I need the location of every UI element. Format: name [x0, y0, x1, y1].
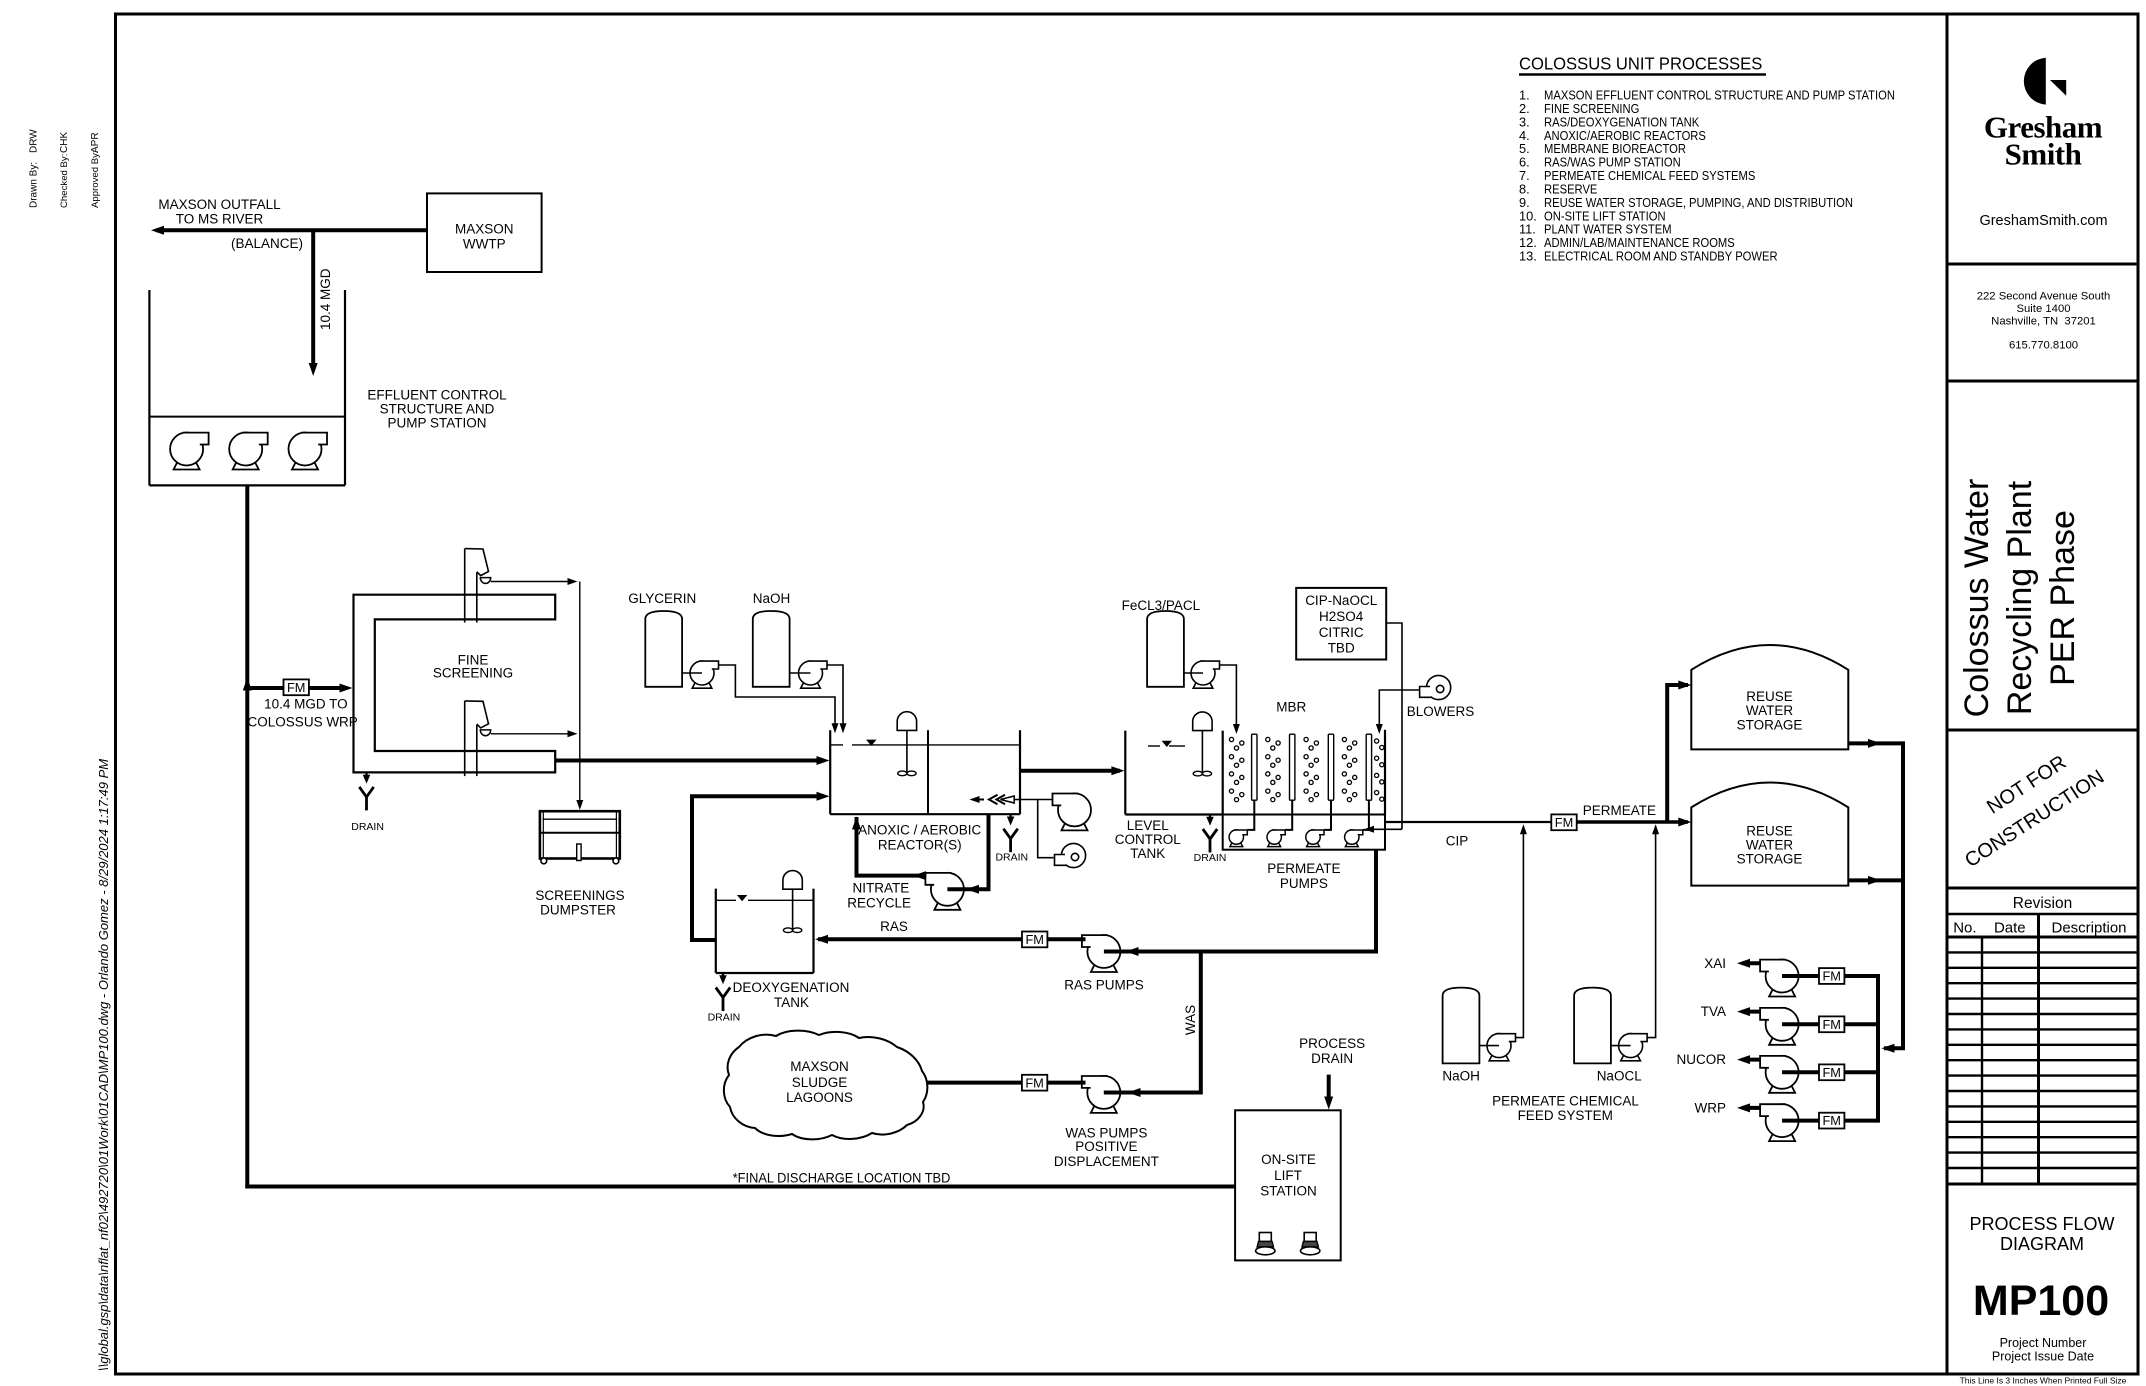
svg-text:REUSE: REUSE: [1746, 823, 1793, 838]
tank: GLYCERIN: [645, 611, 682, 687]
cloud: MAXSON SLUDGE LAGOONS: [724, 1031, 928, 1140]
pipe: permeate header: [1385, 821, 1551, 823]
svg-text:NaOCL: NaOCL: [1597, 1069, 1643, 1084]
screen: lower fine screen: [464, 701, 466, 776]
flow meter FM TVA: [1819, 1016, 1844, 1032]
svg-text:WATER: WATER: [1746, 837, 1793, 852]
svg-text:FM: FM: [1822, 1113, 1840, 1128]
arrow: flow up to screening junction: [243, 678, 252, 691]
flow meter FM WRP: [1819, 1113, 1844, 1129]
pump: FeCL3 feed: [1184, 672, 1203, 674]
svg-text:FM: FM: [1025, 932, 1043, 947]
svg-text:CITRIC: CITRIC: [1319, 625, 1364, 640]
pipe: CIP supply: [1386, 623, 1402, 829]
pump: WAS positive displacement: [1082, 1076, 1121, 1113]
svg-text:EFFLUENT CONTROL: EFFLUENT CONTROL: [367, 388, 507, 403]
flow meter FM XAI: [1819, 968, 1844, 984]
svg-text:Suite 1400: Suite 1400: [2016, 303, 2070, 315]
pipe: membrane 4 suction: [1363, 800, 1369, 830]
screen: upper fine screen: [464, 549, 466, 623]
tank: reuse water storage lower: [1691, 783, 1848, 886]
svg-text:MAXSON OUTFALL: MAXSON OUTFALL: [158, 197, 281, 212]
svg-text:\\global.gsp\data\nflat_nf02\4: \\global.gsp\data\nflat_nf02\492720\01Wo…: [96, 759, 111, 1371]
pump: permeate pump 1: [1229, 830, 1247, 847]
pipe: membrane 3 suction: [1324, 800, 1331, 830]
svg-text:WAS: WAS: [1183, 1005, 1198, 1035]
pipe: WAS branch: [1104, 952, 1201, 1093]
svg-text:Project Number: Project Number: [2000, 1336, 2087, 1350]
tank: level control tank: [1124, 731, 1126, 815]
equipment: screenings dumpster: [540, 811, 620, 858]
title: COLOSSUS UNIT PROCESSES: [1519, 54, 1762, 73]
svg-text:DISPLACEMENT: DISPLACEMENT: [1054, 1154, 1159, 1169]
pipe: membrane 2 suction: [1285, 800, 1292, 830]
flow meter FM RAS: [1022, 932, 1047, 948]
divider: [1947, 380, 2138, 383]
pipe: distribution manifold: [1876, 974, 1880, 1123]
tank: effluent control structure: [148, 290, 150, 485]
svg-text:NITRATE: NITRATE: [853, 880, 910, 895]
water line level tank: [1148, 745, 1160, 747]
svg-text:GLYCERIN: GLYCERIN: [628, 591, 696, 606]
svg-text:TO MS RIVER: TO MS RIVER: [176, 212, 264, 227]
svg-text:615.770.8100: 615.770.8100: [2009, 340, 2078, 352]
wall: reactor partition: [927, 730, 929, 814]
svg-text:10.4 MGD: 10.4 MGD: [318, 268, 333, 330]
pipe: WAS to lagoons: [913, 1081, 1086, 1085]
revision table rows: [1981, 937, 1983, 1184]
svg-text:Date: Date: [1994, 920, 2026, 937]
svg-text:XAI: XAI: [1704, 956, 1726, 971]
title block divider: [1946, 14, 1949, 1374]
tank: MBR basin: [1222, 731, 1224, 815]
svg-text:REACTOR(S): REACTOR(S): [878, 837, 962, 852]
divider: [1947, 263, 2138, 266]
pipe: screenings conveyor lower: [491, 733, 572, 735]
svg-text:ON-SITE: ON-SITE: [1261, 1152, 1316, 1167]
divider: [1947, 1183, 2138, 1186]
pipe: XAI suction: [1782, 974, 1878, 978]
pipe: WRP suction: [1782, 1119, 1878, 1123]
svg-text:Checked By:: Checked By:: [59, 154, 70, 208]
svg-text:TBD: TBD: [1328, 641, 1355, 656]
pipe: RAS discharge: [818, 937, 1086, 941]
logo: Gresham Smith mark: [2024, 58, 2046, 105]
svg-text:Recycling Plant: Recycling Plant: [2001, 480, 2039, 715]
pipe: mixed liquor draw to nitrate pump: [947, 814, 988, 889]
svg-text:222 Second Avenue South: 222 Second Avenue South: [1977, 291, 2111, 303]
flow meter FM influent: [284, 679, 309, 695]
svg-text:DRAIN: DRAIN: [1311, 1051, 1353, 1066]
svg-text:MAXSON: MAXSON: [455, 222, 514, 237]
svg-text:SCREENING: SCREENING: [433, 666, 513, 681]
water line deox: [716, 899, 736, 901]
mixer: level control tank: [1193, 712, 1212, 776]
svg-text:PERMEATE: PERMEATE: [1267, 861, 1340, 876]
membrane module 4: [1366, 734, 1371, 800]
divider: [1947, 913, 2138, 916]
svg-text:PERMEATE CHEMICAL: PERMEATE CHEMICAL: [1492, 1094, 1639, 1109]
svg-text:LAGOONS: LAGOONS: [786, 1090, 853, 1105]
pipe: NUCOR suction: [1782, 1070, 1878, 1074]
svg-text:Smith: Smith: [2005, 137, 2082, 172]
svg-text:DRW: DRW: [29, 129, 40, 153]
pipe: deox to reactor: [692, 796, 824, 940]
pump: permeate pump 4: [1345, 830, 1363, 847]
svg-text:LEVEL: LEVEL: [1127, 818, 1170, 833]
pipe: nitrate recycle return: [857, 817, 927, 876]
svg-text:RAS: RAS: [880, 919, 908, 934]
svg-text:10.4 MGD TO: 10.4 MGD TO: [264, 697, 348, 712]
svg-text:This Line Is 3 Inches When Pri: This Line Is 3 Inches When Printed Full …: [1960, 1376, 2127, 1386]
pipe: final discharge run: [245, 1185, 1235, 1189]
pipe: to TVA: [1742, 1010, 1760, 1014]
svg-text:Drawn By:: Drawn By:: [29, 162, 40, 208]
tank: NaOH permeate: [1443, 988, 1480, 1064]
svg-text:FM: FM: [1822, 1017, 1840, 1032]
pipe: CIP return into pump header: [1366, 828, 1402, 830]
tank: reuse water storage upper: [1691, 645, 1848, 749]
pump: glycerin feed: [682, 672, 702, 674]
blower: jet air: [1055, 843, 1086, 867]
pipe: structure outlet down: [245, 485, 249, 1188]
pump: submersible 1: [1256, 1233, 1275, 1255]
pipe: screenings conveyor upper: [491, 581, 572, 583]
svg-text:Description: Description: [2051, 920, 2126, 937]
pump: effluent pump 2: [229, 433, 268, 470]
svg-text:DRAIN: DRAIN: [708, 1012, 741, 1024]
pipe: membrane 1 suction: [1247, 800, 1254, 830]
pipe: upper tank outlet: [1848, 741, 1903, 745]
pipe: outfall to MS river: [156, 228, 427, 232]
pump: RAS pump: [1082, 935, 1121, 972]
mixer: anoxic cell: [897, 712, 916, 776]
svg-text:*FINAL DISCHARGE LOCATION TBD: *FINAL DISCHARGE LOCATION TBD: [733, 1170, 951, 1185]
pipe: to WRP: [1742, 1106, 1760, 1110]
svg-text:DUMPSTER: DUMPSTER: [540, 903, 616, 918]
pipe: lower tank outlet: [1848, 878, 1903, 882]
svg-text:Colossus Water: Colossus Water: [1958, 479, 1996, 718]
svg-text:DIAGRAM: DIAGRAM: [2000, 1234, 2084, 1254]
pipe: 10.4 MGD drop to effluent structure: [311, 230, 315, 368]
pump: NUCOR distribution: [1760, 1056, 1799, 1093]
pump: NaOCL permeate feed: [1611, 1045, 1631, 1047]
membrane module 1: [1252, 734, 1257, 800]
pipe: to NUCOR: [1742, 1058, 1760, 1062]
pipe: jet feed line: [1020, 799, 1053, 801]
svg-text:TVA: TVA: [1701, 1004, 1726, 1019]
membrane module 3: [1328, 734, 1333, 800]
svg-text:RECYCLE: RECYCLE: [847, 895, 911, 910]
eductor: nitrate recycle jet: [1014, 799, 1020, 801]
pump: TVA distribution: [1760, 1008, 1799, 1045]
pipe: screenings drop to dumpster: [579, 582, 581, 805]
svg-text:(BALANCE): (BALANCE): [231, 236, 303, 251]
svg-text:STATION: STATION: [1260, 1184, 1317, 1199]
svg-text:H2SO4: H2SO4: [1319, 609, 1364, 624]
svg-text:MP100: MP100: [1973, 1277, 2109, 1325]
pump: XAI distribution: [1760, 960, 1799, 997]
svg-text:CIP-NaOCL: CIP-NaOCL: [1305, 593, 1378, 608]
svg-text:13.: 13.: [1519, 249, 1537, 264]
svg-text:PERMEATE: PERMEATE: [1583, 803, 1656, 818]
svg-text:CONTROL: CONTROL: [1115, 832, 1181, 847]
flow meter FM NUCOR: [1819, 1064, 1844, 1080]
svg-text:FM: FM: [1025, 1075, 1043, 1090]
svg-text:DRAIN: DRAIN: [1194, 852, 1227, 864]
svg-text:BLOWERS: BLOWERS: [1407, 704, 1475, 719]
svg-text:ELECTRICAL ROOM AND STANDBY PO: ELECTRICAL ROOM AND STANDBY POWER: [1544, 249, 1778, 264]
box: on-site lift station: [1235, 1110, 1341, 1260]
pipe: process drain into lift station: [1327, 1075, 1331, 1103]
pipe: air to jet: [1038, 800, 1054, 858]
svg-text:SCREENINGS: SCREENINGS: [535, 888, 624, 903]
pipe: storage to distribution manifold: [1884, 741, 1903, 1048]
tank: NaOH (reactor): [753, 611, 790, 687]
svg-text:STRUCTURE AND: STRUCTURE AND: [380, 402, 495, 417]
svg-text:TANK: TANK: [774, 995, 809, 1010]
divider: [1947, 936, 2138, 939]
svg-text:WATER: WATER: [1746, 703, 1793, 718]
svg-text:CHK: CHK: [59, 132, 70, 153]
svg-text:FEED SYSTEM: FEED SYSTEM: [1518, 1108, 1613, 1123]
drain: deox tank: [722, 973, 724, 979]
svg-text:PROCESS FLOW: PROCESS FLOW: [1969, 1214, 2114, 1234]
flow meter FM WAS: [1022, 1075, 1047, 1091]
divider: [1947, 887, 2138, 890]
pipe: TVA suction: [1782, 1022, 1878, 1026]
blower: MBR air blowers: [1420, 675, 1451, 699]
svg-text:GreshamSmith.com: GreshamSmith.com: [1979, 213, 2107, 229]
pipe: reactor outlet to level control tank: [1020, 769, 1120, 773]
pipe: NaOCL to permeate line: [1647, 826, 1656, 1038]
aeration bubbles MBR: [1229, 737, 1384, 801]
svg-text:TANK: TANK: [1130, 846, 1165, 861]
pipe: influent to fine screening: [247, 686, 347, 690]
svg-text:MAXSON: MAXSON: [790, 1059, 849, 1074]
pump: submersible 2: [1301, 1233, 1320, 1255]
svg-text:PUMPS: PUMPS: [1280, 876, 1328, 891]
pipe: glycerin dose line: [719, 665, 836, 728]
pipe: MBR waste to RAS/WAS: [1104, 850, 1376, 952]
pump: permeate pump 2: [1267, 830, 1285, 847]
pump: WRP distribution: [1760, 1104, 1799, 1141]
flow meter FM permeate: [1551, 814, 1576, 830]
box: MAXSON WWTP: [427, 193, 542, 272]
svg-text:PUMP STATION: PUMP STATION: [387, 416, 486, 431]
svg-text:Project Issue Date: Project Issue Date: [1992, 1350, 2094, 1364]
pump: effluent pump 3: [289, 433, 328, 470]
tank: anoxic/aerobic reactor: [829, 730, 831, 814]
svg-text:STORAGE: STORAGE: [1737, 717, 1803, 732]
svg-text:COLOSSUS WRP: COLOSSUS WRP: [248, 715, 358, 730]
svg-text:FM: FM: [287, 680, 305, 695]
box: CIP chemicals: [1296, 588, 1386, 660]
svg-text:DRAIN: DRAIN: [995, 852, 1028, 864]
svg-text:WAS PUMPS: WAS PUMPS: [1065, 1125, 1147, 1140]
svg-text:PER Phase: PER Phase: [2044, 510, 2082, 686]
svg-text:APR: APR: [90, 132, 101, 153]
pump: nitrate recycle: [925, 873, 964, 910]
svg-text:FM: FM: [1822, 969, 1840, 984]
pump: NaOH feed: [790, 672, 811, 674]
svg-text:FM: FM: [1822, 1065, 1840, 1080]
pipe: FeCL3 dose to MBR: [1220, 665, 1237, 729]
svg-text:ANOXIC / AEROBIC: ANOXIC / AEROBIC: [858, 822, 981, 837]
svg-text:FM: FM: [1555, 815, 1573, 830]
svg-text:DRAIN: DRAIN: [351, 821, 384, 833]
divider: [1947, 729, 2138, 732]
drain: reactor: [1009, 814, 1011, 820]
svg-text:WWTP: WWTP: [463, 237, 506, 252]
svg-text:POSITIVE: POSITIVE: [1075, 1139, 1137, 1154]
svg-text:FeCL3/PACL: FeCL3/PACL: [1122, 598, 1201, 613]
svg-text:Approved By:: Approved By:: [90, 150, 101, 208]
svg-text:CIP: CIP: [1446, 834, 1469, 849]
drain: fine screening: [365, 772, 367, 778]
tank: fine screening channel: [354, 595, 556, 773]
svg-text:REUSE: REUSE: [1746, 689, 1793, 704]
pipe: NaOH to permeate line: [1516, 826, 1524, 1038]
svg-text:RAS PUMPS: RAS PUMPS: [1064, 978, 1144, 993]
pipe: air to MBR: [1379, 690, 1419, 729]
tank: NaOCL permeate: [1574, 988, 1611, 1064]
pump: permeate pump 3: [1306, 830, 1324, 847]
svg-text:NaOH: NaOH: [1442, 1069, 1480, 1084]
pipe: NaOH dose line: [827, 665, 843, 728]
svg-text:Revision: Revision: [2013, 895, 2072, 912]
mixer: deox tank: [783, 871, 802, 933]
svg-text:WRP: WRP: [1695, 1100, 1727, 1115]
svg-text:LIFT: LIFT: [1274, 1168, 1302, 1183]
svg-text:NUCOR: NUCOR: [1677, 1052, 1727, 1067]
pipe: screened water to reactors: [555, 759, 824, 763]
pipe: to XAI: [1742, 961, 1760, 965]
svg-text:SLUDGE: SLUDGE: [792, 1075, 848, 1090]
svg-text:DEOXYGENATION: DEOXYGENATION: [733, 980, 850, 995]
svg-text:Nashville, TN 37201: Nashville, TN 37201: [1991, 316, 2096, 328]
svg-text:STORAGE: STORAGE: [1737, 852, 1803, 867]
drain: level control tank: [1209, 815, 1211, 821]
svg-text:PROCESS: PROCESS: [1299, 1036, 1365, 1051]
pipe: permeate riser to upper tank: [1667, 685, 1688, 822]
svg-text:MBR: MBR: [1276, 700, 1306, 715]
pump: effluent pump 1: [170, 433, 209, 470]
water line reactor: [830, 744, 843, 746]
svg-text:COLOSSUS UNIT PROCESSES: COLOSSUS UNIT PROCESSES: [1519, 54, 1762, 73]
pump: NaOH permeate feed: [1479, 1045, 1499, 1047]
tank: deoxygenation: [715, 889, 717, 973]
membrane module 2: [1290, 734, 1295, 800]
svg-text:NaOH: NaOH: [753, 591, 791, 606]
svg-text:No.: No.: [1953, 920, 1976, 937]
pump: jet recirculation: [1053, 793, 1092, 830]
tank: FeCL3/PACL: [1147, 611, 1184, 687]
box: permeate pump room: [1223, 815, 1385, 850]
label: FINAL DISCHARGE LOCATION TBD: [733, 1170, 951, 1185]
